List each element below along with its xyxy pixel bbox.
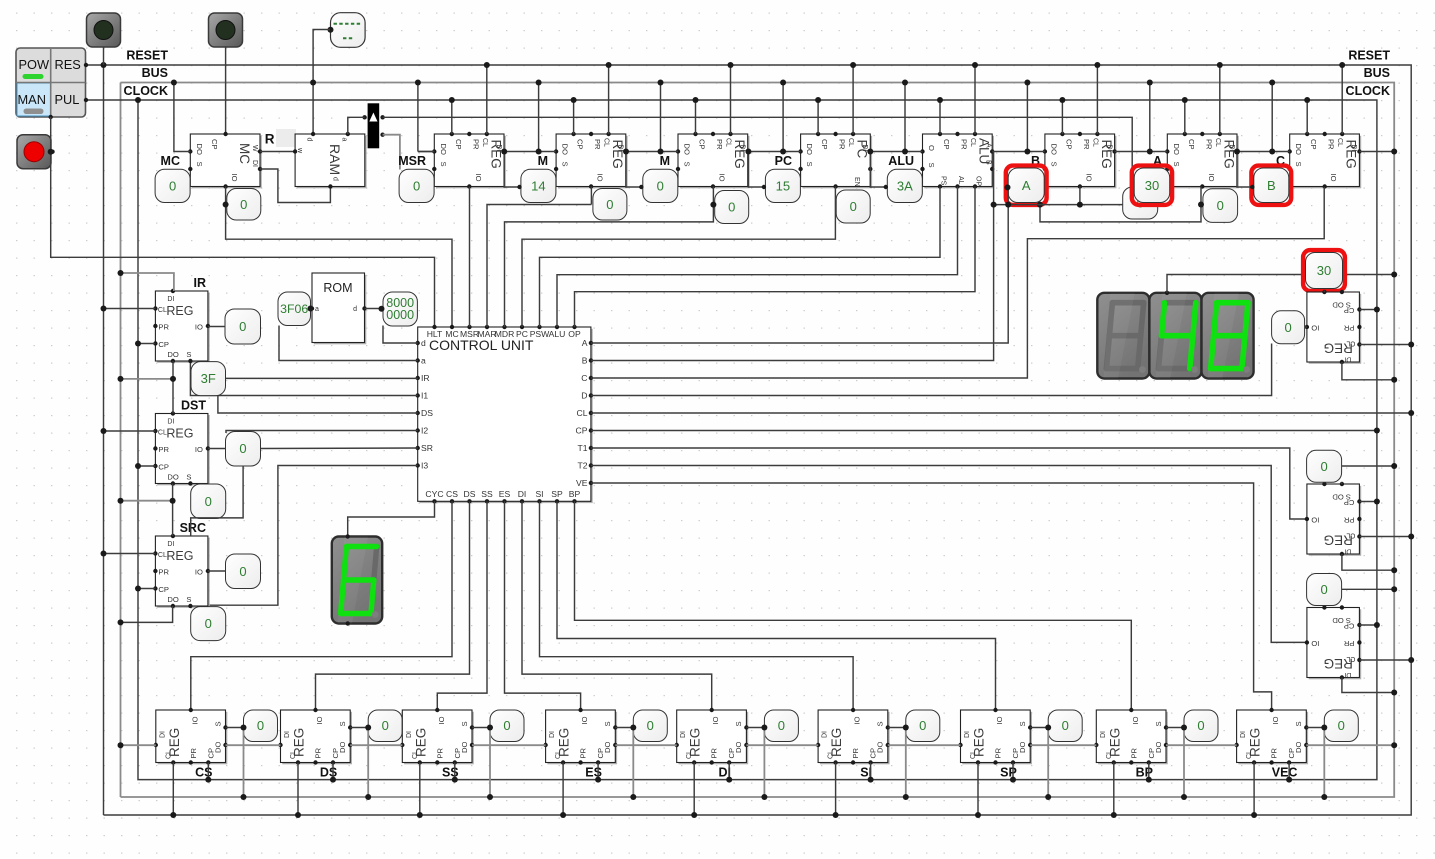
- node junction CLOCK left vertical: [135, 97, 141, 103]
- wire BUS riser at x=1150: [1149, 83, 1151, 152]
- svg-text:S: S: [1172, 162, 1181, 167]
- wire BUS to MC DO: [174, 83, 190, 152]
- svg-text:15: 15: [776, 178, 790, 193]
- svg-text:IO: IO: [995, 716, 1004, 724]
- node junction (836,815): [833, 812, 839, 818]
- svg-text:CLOCK: CLOCK: [1346, 84, 1390, 98]
- wire DS ctrl net to DS register IO: [316, 501, 470, 710]
- wire ES S pin to probe: [615, 727, 633, 729]
- register SI (bottom row REG): [816, 708, 890, 765]
- svg-text:CLOCK: CLOCK: [124, 84, 168, 98]
- wire CS probe column to BUS bottom line: [243, 728, 245, 798]
- svg-text:PR: PR: [710, 747, 719, 758]
- wire CLOCK drop to CP at x=434: [451, 100, 453, 134]
- svg-text:PR: PR: [158, 568, 169, 577]
- svg-text:SP: SP: [551, 489, 563, 499]
- svg-text:DI: DI: [1344, 356, 1351, 363]
- node junction (713,205): [710, 202, 716, 208]
- svg-text:IO: IO: [230, 174, 239, 182]
- svg-text:PR: PR: [593, 139, 602, 150]
- node junction (368,797): [365, 794, 371, 800]
- svg-text:DI: DI: [406, 731, 413, 738]
- svg-text:REG: REG: [1324, 533, 1353, 548]
- wire DI CP to CLOCK bottom line: [728, 763, 730, 780]
- svg-text:PC: PC: [516, 329, 528, 339]
- svg-text:PR: PR: [1204, 139, 1213, 150]
- probe ALU value: [887, 169, 922, 202]
- wire DS CP to CLOCK bottom line: [332, 763, 334, 780]
- svg-text:PR: PR: [1129, 747, 1138, 758]
- wire DS S pin to probe: [350, 727, 368, 729]
- node junction (1062,100): [1059, 97, 1065, 103]
- svg-text:MAR: MAR: [477, 329, 496, 339]
- svg-text:CL: CL: [1091, 138, 1098, 147]
- svg-text:BP: BP: [569, 489, 581, 499]
- wire BP CL to RESET bottom line: [1113, 763, 1115, 816]
- wire bottom data chain segment x=472: [472, 744, 546, 746]
- register M (MDR) (top row REG): [676, 132, 750, 189]
- svg-text:PR: PR: [851, 747, 860, 758]
- wire BUS net left vertical: [120, 83, 122, 798]
- svg-text:IO: IO: [195, 568, 203, 577]
- node junction (1150,82): [1147, 80, 1153, 86]
- node junction (504,152): [501, 149, 507, 155]
- svg-text:IO: IO: [190, 716, 199, 724]
- svg-text:DI: DI: [1344, 671, 1351, 678]
- probe R3 DO value: [1307, 574, 1342, 606]
- node junction red button on HLT column: [48, 149, 54, 155]
- node junction (694,815): [691, 812, 697, 818]
- probe SS S value: [490, 710, 524, 742]
- wire I3 net: SRC output to CU I3: [208, 466, 418, 606]
- probe DI S value: [764, 710, 798, 742]
- svg-text:S: S: [927, 163, 936, 168]
- svg-text:d: d: [353, 306, 357, 313]
- svg-text:0: 0: [239, 564, 246, 579]
- svg-text:DI: DI: [964, 731, 971, 738]
- svg-text:S: S: [186, 473, 191, 482]
- wire ALU A - B DO chain: [992, 151, 1045, 153]
- svg-text:0: 0: [1062, 718, 1069, 733]
- svg-text:B: B: [582, 356, 588, 366]
- probe R2 DO value: [1307, 450, 1342, 482]
- svg-text:PR: PR: [960, 139, 969, 150]
- svg-text:PR: PR: [158, 323, 169, 332]
- svg-text:CL: CL: [725, 138, 732, 147]
- svg-text:0: 0: [413, 178, 420, 193]
- node junction (539,152): [536, 149, 542, 155]
- wire BP S pin to probe: [1166, 727, 1184, 729]
- svg-text:REG: REG: [166, 427, 193, 441]
- node junction (729,780): [726, 777, 732, 783]
- svg-text:MC: MC: [445, 329, 458, 339]
- wire red 30 probe to R1 top: [1323, 291, 1325, 293]
- svg-text:IO: IO: [711, 716, 720, 724]
- probe VEC S value: [1324, 710, 1358, 742]
- wire SS CP to CLOCK bottom line: [454, 763, 456, 780]
- wire BUS net: top run, right drop, bottom run: [121, 83, 1395, 798]
- node junction (1394,466): [1391, 463, 1397, 469]
- node junction (1394,570): [1391, 567, 1397, 573]
- svg-text:CP: CP: [942, 139, 951, 150]
- svg-text:REG: REG: [1107, 728, 1122, 757]
- wire display net from red 30 probe (left segment): [1167, 275, 1305, 293]
- node junction (905,152): [902, 149, 908, 155]
- probe MAR value: [521, 169, 556, 202]
- svg-text:DO: DO: [167, 350, 178, 359]
- svg-text:HLT: HLT: [427, 329, 443, 339]
- node junction (333,780): [330, 777, 336, 783]
- svg-text:RESET: RESET: [1348, 49, 1390, 63]
- node junction (490,728): [487, 725, 493, 731]
- svg-text:REG: REG: [557, 728, 572, 757]
- svg-text:IO: IO: [1311, 639, 1319, 648]
- svg-text:ALU: ALU: [888, 154, 914, 168]
- wire PC DI - ALU O chain: [870, 151, 922, 153]
- probe A value (red): [1132, 166, 1172, 205]
- node junction (138,466): [135, 463, 141, 469]
- svg-text:S: S: [805, 162, 814, 167]
- node junction (626,152): [623, 149, 629, 155]
- svg-text:CP: CP: [1064, 139, 1073, 150]
- svg-text:DI: DI: [518, 489, 527, 499]
- wire bottom data chain segment x=350: [350, 744, 402, 746]
- svg-text:IO: IO: [315, 716, 324, 724]
- wire A DI - C DO chain: [1237, 151, 1290, 153]
- node junction (1324,728): [1321, 725, 1327, 731]
- wire BUS riser at x=1272: [1271, 83, 1273, 152]
- svg-text:PR: PR: [435, 747, 444, 758]
- svg-text:ES: ES: [499, 489, 511, 499]
- svg-text:0: 0: [169, 178, 176, 193]
- probe ES S value: [633, 710, 667, 742]
- svg-text:DO: DO: [1018, 742, 1027, 753]
- svg-text:S: S: [1294, 162, 1303, 167]
- svg-text:CL: CL: [1336, 138, 1343, 147]
- memory ROM: [310, 273, 367, 344]
- wire button B1 to RESET line: [103, 47, 105, 65]
- node junction (1394,380): [1391, 377, 1397, 383]
- wire ES CP to CLOCK bottom line: [597, 763, 599, 780]
- svg-text:I1: I1: [421, 391, 428, 401]
- wire RESET drop to CL at x=556: [608, 65, 610, 134]
- svg-text:0: 0: [1320, 459, 1327, 474]
- node junction (1048,797): [1045, 794, 1051, 800]
- svg-text:A: A: [582, 338, 588, 348]
- svg-text:C: C: [581, 373, 587, 383]
- node junction (452,100): [449, 97, 455, 103]
- node junction (490,797): [487, 794, 493, 800]
- wire VEC probe column to BUS bottom line: [1323, 728, 1325, 798]
- wire SS ctrl net to SS register IO: [437, 501, 487, 710]
- node junction (764,728): [761, 725, 767, 731]
- svg-text:SRC: SRC: [180, 521, 206, 535]
- wire MSR DI drop to MAR value probe pin: [504, 152, 519, 188]
- wire HLT net: MAN button down, across, to CONTROL UNIT HLT: [51, 117, 435, 327]
- node junction (975,65): [972, 62, 978, 68]
- register PC: [798, 132, 872, 189]
- svg-text:PR: PR: [838, 139, 847, 150]
- wire SP CP to CLOCK bottom line: [1012, 763, 1014, 780]
- wire R3 DI to BUS vertical: [1342, 678, 1394, 693]
- svg-text:VE: VE: [576, 478, 588, 488]
- node junction (905,82): [902, 80, 908, 86]
- node junction (208,780): [205, 777, 211, 783]
- wire A net: CU A up to red probe pin: [591, 187, 1008, 343]
- bus driver D1 (black tri-state): [362, 103, 384, 148]
- svg-text:PR: PR: [189, 747, 198, 758]
- wire CS S pin to probe: [226, 727, 244, 729]
- node junction (574,100): [571, 97, 577, 103]
- probe CS S value: [244, 710, 278, 742]
- svg-text:CL: CL: [577, 408, 588, 418]
- svg-text:0: 0: [1320, 582, 1327, 597]
- wire RESET drop to CL at x=1045: [1096, 65, 1098, 134]
- svg-text:A: A: [1022, 178, 1031, 193]
- wire CLOCK drop to CP at x=678: [695, 100, 697, 134]
- wire VEC S pin to probe: [1306, 727, 1324, 729]
- svg-text:DI: DI: [822, 731, 829, 738]
- svg-text:DI: DI: [1240, 731, 1247, 738]
- svg-text:a: a: [340, 138, 347, 142]
- wire DS probe column to BUS bottom line: [367, 728, 369, 798]
- node junction (563,815): [560, 812, 566, 818]
- wire ES CL to RESET bottom line: [562, 763, 564, 816]
- probe IR IO value: [225, 309, 261, 344]
- wire C DI to BUS right vertical: [1359, 151, 1394, 153]
- wire B DI - A DO chain: [1115, 151, 1168, 153]
- node junction (906,797): [903, 794, 909, 800]
- register C (top row REG): [1288, 132, 1362, 189]
- probe BP S value: [1184, 710, 1218, 742]
- svg-text:DS: DS: [421, 408, 433, 418]
- wire CS CP to CLOCK bottom line: [207, 763, 209, 780]
- wire IR DO down to DST DI: [172, 361, 174, 414]
- node junction (1324,797): [1321, 794, 1327, 800]
- svg-text:S: S: [603, 721, 612, 726]
- register VEC (bottom row REG): [1234, 708, 1308, 765]
- svg-text:MAN: MAN: [18, 92, 46, 107]
- wire MSR ctrl net (CU MSR to MSR IO): [469, 187, 471, 328]
- svg-text:CP: CP: [576, 426, 588, 436]
- svg-text:REG: REG: [167, 728, 182, 757]
- wire VEC CP to CLOCK bottom line: [1288, 763, 1290, 780]
- node junction (120,745): [118, 742, 124, 748]
- wire PSW ctrl net to ALU PS: [540, 187, 941, 328]
- svg-text:OP: OP: [568, 329, 581, 339]
- wire MC control net to CONTROL UNIT MC pin: [226, 187, 452, 328]
- svg-text:REG: REG: [1324, 656, 1353, 671]
- svg-text:S: S: [338, 721, 347, 726]
- svg-text:A: A: [985, 143, 992, 148]
- svg-text:DO: DO: [876, 742, 885, 753]
- svg-text:S: S: [186, 350, 191, 359]
- wire R2 DI to BUS vertical: [1342, 554, 1394, 570]
- node junction (764,797): [761, 794, 767, 800]
- svg-text:RAM: RAM: [327, 144, 343, 175]
- node junction (730,65): [728, 62, 734, 68]
- probe SRC DO value: [191, 607, 226, 641]
- svg-text:S: S: [195, 162, 204, 167]
- svg-text:0: 0: [240, 197, 247, 212]
- svg-text:DI: DI: [1344, 548, 1351, 555]
- svg-text:PR: PR: [1270, 747, 1279, 758]
- wire PC DI drop to ALU value probe pin: [870, 152, 886, 188]
- svg-text:DI: DI: [1105, 145, 1112, 152]
- wire bottom data chain segment x=1306: [1306, 744, 1394, 746]
- svg-text:PR: PR: [471, 139, 480, 150]
- probe PC IO value: [836, 190, 870, 223]
- wire CS ctrl net to CS register IO: [191, 501, 452, 710]
- wire SS probe column to BUS bottom line: [489, 728, 491, 798]
- wire CYC net to 7-segment display: [348, 501, 435, 536]
- wire DI probe column to BUS bottom line: [763, 728, 765, 798]
- wire DS net to CU: [218, 396, 418, 413]
- node junction (633,797): [630, 794, 636, 800]
- wire CLOCK drop to CP at x=1167: [1184, 100, 1186, 134]
- register B (top row REG): [1043, 132, 1117, 189]
- node junction (598,780): [595, 777, 601, 783]
- wire CLOCK drop to CP at x=922: [939, 100, 941, 134]
- node junction (120,622): [118, 619, 124, 625]
- node junction (104,554): [101, 551, 107, 557]
- svg-text:PR: PR: [579, 747, 588, 758]
- svg-text:0: 0: [257, 718, 264, 733]
- wire RESET net left vertical: [103, 65, 105, 815]
- node junction (173,379): [170, 376, 176, 382]
- svg-text:S: S: [1049, 162, 1058, 167]
- node junction (994,205): [991, 202, 997, 208]
- wire DST DO down to SRC DI: [172, 484, 174, 537]
- probe MDR IO value: [715, 191, 749, 224]
- register SP (bottom row REG): [958, 708, 1032, 765]
- wire SP ctrl net to SP register IO: [557, 501, 996, 710]
- svg-text:R: R: [265, 132, 275, 147]
- wire ROM d to data probe: [365, 308, 384, 310]
- node junction (906,728): [903, 725, 909, 731]
- svg-text:DI: DI: [167, 296, 174, 303]
- node junction (871,780): [868, 777, 874, 783]
- node junction (1377,310): [1374, 307, 1380, 313]
- svg-text:DO: DO: [1154, 742, 1163, 753]
- svg-text:CP: CP: [1344, 498, 1355, 507]
- wire SP probe column to BUS bottom line: [1047, 728, 1049, 798]
- svg-text:DI: DI: [284, 731, 291, 738]
- svg-text:DI: DI: [549, 731, 556, 738]
- svg-text:PR: PR: [1082, 139, 1091, 150]
- svg-text:IO: IO: [1329, 174, 1338, 182]
- svg-text:0: 0: [503, 718, 510, 733]
- wire RESET drop to CL at x=1167: [1219, 65, 1221, 134]
- wire R1 DI to BUS vertical: [1342, 362, 1394, 380]
- probe SRC IO value: [226, 554, 261, 589]
- wire SS CL to RESET bottom line: [419, 763, 421, 816]
- node junction (244,728): [241, 725, 247, 731]
- node junction (539,82): [536, 80, 542, 86]
- svg-text:d: d: [421, 338, 426, 348]
- svg-text:a: a: [315, 306, 319, 313]
- svg-text:0: 0: [1338, 718, 1345, 733]
- probe PC value: [765, 169, 800, 202]
- svg-text:PSW: PSW: [530, 329, 550, 339]
- svg-text:0: 0: [1217, 198, 1224, 213]
- wire CLOCK drop to CP at x=556: [573, 100, 575, 134]
- wire R2 CP to CLOCK vertical: [1359, 501, 1377, 503]
- node junction (783,152): [780, 149, 786, 155]
- wire RESET to IR CL: [104, 308, 156, 310]
- wire CLOCK drop to CP at x=801: [817, 100, 819, 134]
- wire RESET drop to CL at x=434: [486, 65, 488, 134]
- wire BUS riser at x=1027: [1026, 83, 1028, 152]
- node junction (1150,152): [1147, 149, 1153, 155]
- svg-text:0: 0: [1197, 718, 1204, 733]
- probe MDR value: [643, 169, 678, 202]
- node junction (818,100): [815, 97, 821, 103]
- node junction (940,100): [937, 97, 943, 103]
- wire B IO drop to value line: [1079, 187, 1081, 205]
- svg-text:DO: DO: [1294, 742, 1303, 753]
- svg-text:0: 0: [239, 441, 246, 456]
- svg-text:DO: DO: [167, 473, 178, 482]
- wire SI CP to CLOCK bottom line: [870, 763, 872, 780]
- svg-text:PR: PR: [158, 445, 169, 454]
- node junction (1184,797): [1181, 794, 1187, 800]
- wire VEC CL to RESET bottom line: [1253, 763, 1255, 816]
- wire BUS riser at x=539: [538, 83, 540, 152]
- svg-text:DO: DO: [683, 144, 692, 155]
- svg-text:0000: 0000: [386, 308, 414, 322]
- wire CLOCK to DST CP: [138, 465, 155, 467]
- node junction (1149,780): [1146, 777, 1152, 783]
- node junction (1040,205): [1037, 202, 1043, 208]
- wire ES probe column to BUS bottom line: [632, 728, 634, 798]
- svg-text:S: S: [186, 595, 191, 604]
- wire DI CL to RESET bottom line: [693, 763, 695, 816]
- svg-text:DS: DS: [464, 489, 476, 499]
- wire CLOCK drop to CP at x=1290: [1306, 100, 1308, 134]
- wire BUS tap to IR DO column: [121, 378, 174, 380]
- register ES (bottom row REG): [543, 708, 617, 765]
- probe DS S value: [368, 710, 402, 742]
- svg-text:S: S: [439, 162, 448, 167]
- node junction (660,152): [658, 149, 664, 155]
- wire A DI drop to C value probe pin: [1237, 152, 1252, 188]
- node junction (138,588): [135, 586, 141, 592]
- svg-text:IO: IO: [1131, 716, 1140, 724]
- svg-text:w: w: [296, 147, 303, 154]
- svg-text:IO: IO: [437, 716, 446, 724]
- wire BP ctrl net to BP register IO: [575, 501, 1132, 710]
- register A (top row REG): [1165, 132, 1239, 189]
- svg-text:REG: REG: [413, 728, 428, 757]
- node junction (120,273): [118, 270, 124, 276]
- svg-text:PR: PR: [1343, 516, 1354, 525]
- wire DS CL to RESET bottom line: [297, 763, 299, 816]
- register R2 (right column REG, rotated 180): [1305, 482, 1362, 556]
- svg-text:3F: 3F: [201, 371, 216, 386]
- probe SI S value: [906, 710, 940, 742]
- node junction (420,815): [417, 812, 423, 818]
- svg-text:0: 0: [239, 319, 246, 334]
- svg-text:DO: DO: [734, 742, 743, 753]
- push button B2 (dark round button): [209, 13, 243, 47]
- node junction (487,65): [484, 62, 490, 68]
- svg-text:SR: SR: [421, 443, 433, 453]
- svg-text:B: B: [985, 160, 992, 165]
- svg-text:DO: DO: [213, 742, 222, 753]
- register DST: [153, 411, 210, 485]
- probe MAR IO value: [593, 189, 627, 221]
